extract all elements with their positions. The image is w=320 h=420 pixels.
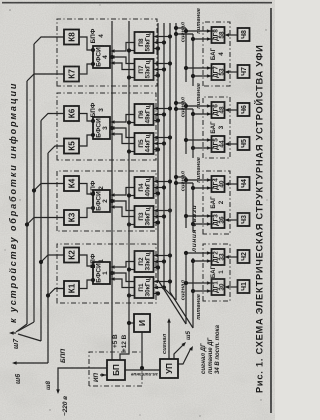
wire: К6 output to bus 3 bbox=[41, 114, 64, 121]
block БФСИ 2 bbox=[93, 190, 110, 212]
block К6 bbox=[64, 106, 79, 121]
tap: trunk line 2 to П1 bbox=[155, 287, 164, 289]
wire: П8 to БФСИ 4 bbox=[112, 43, 135, 52]
block Ч2 bbox=[238, 250, 250, 263]
block ДГ5 (44) bbox=[212, 136, 226, 152]
block К7 bbox=[64, 67, 79, 82]
block П5 (44 кГц) bbox=[135, 133, 154, 154]
stub: +12 В rail to П2 bbox=[129, 269, 135, 271]
group label БАГ 4 bbox=[210, 47, 225, 60]
block ДГ3 (36) bbox=[212, 212, 226, 228]
wire: П7 to БФСИ 4 (signal) bbox=[112, 63, 135, 70]
wire: К3 output to bus 1 bbox=[27, 218, 64, 225]
wire: П1 to БФСИ 1 (signal) bbox=[112, 279, 135, 288]
wire: К7 to БФСИ 4 bbox=[79, 64, 93, 74]
group label БПФ 3 bbox=[90, 102, 105, 117]
wire: К4 to БФСИ 2 bbox=[79, 184, 93, 195]
block Ч3 bbox=[238, 213, 250, 226]
bus line 4 (y47) to ш6 bbox=[47, 153, 49, 363]
wire: П6 to БФСИ 3 bbox=[112, 115, 135, 123]
block Ч8 bbox=[238, 28, 250, 41]
tap: trunk line 1 to П3 bbox=[155, 222, 158, 224]
page edge (right of landscape scan) bbox=[2, 2, 272, 4]
tap: trunk line 3 to П8 bbox=[155, 36, 170, 38]
wire: К4 output to bus 2 bbox=[34, 184, 64, 191]
dashed group boundary БПФ 1 bbox=[57, 244, 156, 303]
block Ч4 bbox=[238, 177, 250, 190]
tap: trunk line 2 to П3 bbox=[155, 216, 164, 218]
block К3 bbox=[64, 210, 79, 225]
block П4 (40 кГц) bbox=[135, 177, 154, 198]
tap: trunk line 3 to П2 bbox=[155, 255, 170, 257]
feed: питание rail to ДГ bbox=[193, 147, 213, 149]
block БФСИ 4 bbox=[93, 46, 110, 68]
feed: сигнал rail to ДГ bbox=[186, 179, 213, 181]
block ДГ2 (33) bbox=[212, 249, 226, 265]
stub: +5 В rail to БФСИ 3 bbox=[110, 127, 112, 129]
stub: +12 В rail to П8 bbox=[129, 50, 135, 52]
wire: УП to ш5 (сигнал ДГ) bbox=[174, 344, 184, 359]
wire: К8 output to bus 2 bbox=[34, 37, 64, 44]
wire: П3 to БФСИ 2 (signal) bbox=[112, 207, 135, 217]
block ДГ4 (40) bbox=[212, 176, 226, 192]
tap: trunk line 1 to П7 bbox=[155, 75, 158, 77]
tap: trunk line 3 to П1 bbox=[155, 281, 170, 283]
power rail (питание) of БАГ 2 bbox=[192, 183, 194, 232]
feed: питание rail to ДГ bbox=[193, 187, 213, 189]
page edge (bottom of landscape scan) bbox=[270, 8, 272, 413]
wire: П3 to БФСИ 2 (sync) bbox=[112, 201, 135, 211]
block ДГ1 (30) bbox=[212, 279, 226, 295]
wire: П5 to БФСИ 3 (signal) bbox=[112, 134, 135, 144]
wire: УП to ш5 (питание ДГ 34 В) bbox=[178, 348, 191, 364]
stub: +5 В rail to БФСИ 4 bbox=[110, 56, 112, 58]
block Ч6 bbox=[238, 103, 250, 116]
signal rail (сигнал) of БАГ 4 bbox=[185, 28, 187, 82]
connector arrow ш7 (fork merge of buses) bbox=[11, 322, 41, 341]
wire: К1 output to bus 4 bbox=[48, 289, 64, 296]
signal rail (сигнал) of БАГ 3 bbox=[185, 103, 187, 154]
block БФСИ 3 bbox=[93, 117, 110, 139]
riser: trunk to питание rail БАГ 2 bbox=[176, 182, 193, 184]
tap: trunk line 2 to П4 bbox=[155, 187, 164, 189]
control unit УП bbox=[160, 359, 178, 378]
power rail +5 В bbox=[111, 21, 113, 360]
signal rail (сигнал) of БАГ 2 bbox=[185, 177, 187, 228]
group label БПФ 4 bbox=[90, 28, 105, 43]
wire: Ч3 to ДГ3 bbox=[226, 219, 238, 221]
stub: +12 В rail to И bbox=[129, 322, 135, 324]
group label БАГ 2 bbox=[210, 196, 225, 209]
block П7 (53 кГц) bbox=[135, 59, 154, 80]
block И bbox=[134, 314, 150, 332]
power rail (питание) of БАГ 3 bbox=[192, 109, 194, 158]
wire: К2 output to bus 3 bbox=[41, 255, 64, 262]
block П6 (48 кГц) bbox=[135, 104, 154, 125]
stub: +12 В rail to П3 bbox=[129, 224, 135, 226]
feed: сигнал rail to ДГ bbox=[186, 139, 213, 141]
tap: trunk line 1 to П5 bbox=[155, 149, 158, 151]
communication line 4 (линия связи) bbox=[175, 23, 177, 300]
dashed group boundary БПФ 2 bbox=[57, 171, 156, 231]
wire: К8 to БФСИ 4 bbox=[79, 37, 93, 50]
riser: trunk to сигнал rail БАГ 3 bbox=[176, 102, 186, 104]
tap: trunk line 2 to П7 bbox=[155, 69, 164, 71]
tap: trunk line 2 to П8 bbox=[155, 42, 164, 44]
dashed group boundary БПФ 4 bbox=[57, 19, 157, 86]
block ДГ7 (53) bbox=[212, 64, 226, 80]
group label БАГ 1 bbox=[210, 265, 225, 278]
wire: К5 output to bus 4 bbox=[48, 146, 64, 153]
dashed group boundary БПП bbox=[89, 352, 142, 386]
wire: К2 to БФСИ 1 bbox=[79, 255, 93, 266]
wire: Ч6 to ДГ6 bbox=[226, 109, 238, 111]
power rail (питание) of БАГ 1 bbox=[192, 258, 194, 328]
signal rail (сигнал) of БАГ 1 bbox=[185, 252, 187, 324]
stub: +5 В rail to БФСИ 1 bbox=[110, 272, 112, 274]
wire: П2 to БФСИ 1 bbox=[112, 262, 135, 268]
bus line 1 (y24) to ш7 bbox=[26, 81, 28, 324]
feed: питание rail to ДГ bbox=[193, 75, 213, 77]
wire: УП сигнал output to trunk area bbox=[168, 320, 170, 359]
feed: питание rail to ДГ bbox=[193, 223, 213, 225]
block П8 (58 кГц) bbox=[135, 32, 154, 53]
riser: trunk to питание rail БАГ 3 bbox=[176, 108, 193, 110]
block К4 bbox=[64, 176, 79, 191]
block К1 bbox=[64, 281, 79, 296]
block П3 (36 кГц) bbox=[135, 206, 154, 227]
feed: питание rail to ДГ bbox=[193, 38, 213, 40]
feed: сигнал rail to ДГ bbox=[186, 215, 213, 217]
block Ч1 bbox=[238, 280, 250, 293]
connector arrow ш6 (to data-processing device) bbox=[14, 362, 48, 364]
communication line 2 (линия связи) bbox=[163, 23, 165, 288]
tap: trunk line 3 to П3 bbox=[155, 210, 170, 212]
block БФСИ 1 bbox=[93, 262, 110, 284]
wire: mains ~220 В to БП via ш8 bbox=[58, 368, 107, 392]
wire: К7 output to bus 1 bbox=[27, 74, 64, 81]
tap: trunk line 3 to П6 bbox=[155, 108, 170, 110]
feed: сигнал rail to ДГ bbox=[186, 67, 213, 69]
stub: +12 В rail to П7 bbox=[129, 77, 135, 79]
wire: К1 to БФСИ 1 bbox=[79, 280, 93, 289]
tap: trunk line 2 to П6 bbox=[155, 114, 164, 116]
block П1 (30 кГц) bbox=[135, 277, 154, 298]
block ДГ8 (58) bbox=[212, 27, 226, 43]
stub: +12 В rail to П5 bbox=[129, 151, 135, 153]
wire: Ч7 to ДГ7 bbox=[226, 71, 238, 73]
power unit БП bbox=[107, 360, 125, 380]
feed: сигнал rail to ДГ bbox=[186, 252, 213, 254]
block ДГ6 (48) bbox=[212, 102, 226, 118]
tap: trunk line 1 to П8 bbox=[155, 48, 158, 50]
stub: +12 В rail to П6 bbox=[129, 122, 135, 124]
wire: Ч1 to ДГ1 bbox=[226, 286, 238, 288]
wire: БП to УП (эл. питание) bbox=[125, 369, 160, 371]
dashed group boundary БАГ 2 bbox=[203, 171, 230, 234]
wire: trunk line 1 to ш5 (сигнал ДГ) bbox=[158, 280, 186, 324]
wire: Ч2 to ДГ2 bbox=[226, 256, 238, 258]
tap: trunk line 1 to П4 bbox=[155, 193, 158, 195]
wire: П7 to БФСИ 4 (sync) bbox=[112, 57, 135, 64]
feed: сигнал rail to ДГ bbox=[186, 105, 213, 107]
tap: trunk line 3 to П7 bbox=[155, 63, 170, 65]
wire: П5 to БФСИ 3 (sync) bbox=[112, 128, 135, 138]
stub: +12 В rail to П4 bbox=[129, 195, 135, 197]
wire: П1 to БФСИ 1 (sync) bbox=[112, 273, 135, 282]
wire: И to УП branch bbox=[141, 332, 143, 368]
power rail (питание) of БАГ 4 bbox=[192, 34, 194, 86]
dashed group boundary БПФ 3 bbox=[57, 93, 156, 160]
tap: trunk line 2 to П5 bbox=[155, 143, 164, 145]
feed: сигнал rail to ДГ bbox=[186, 30, 213, 32]
stub: +5 В rail to БФСИ 2 bbox=[110, 200, 112, 202]
wire: К3 to БФСИ 2 bbox=[79, 208, 93, 218]
tap: trunk line 3 to П5 bbox=[155, 137, 170, 139]
wire: К6 to БФСИ 3 bbox=[79, 114, 93, 122]
dashed group boundary БАГ 3 bbox=[203, 97, 230, 158]
group label БПФ 2 bbox=[90, 180, 105, 195]
feed: питание rail to ДГ bbox=[193, 260, 213, 262]
block Ч5 bbox=[238, 137, 250, 150]
tap: trunk line 2 to П2 bbox=[155, 261, 164, 263]
wire: ИП into БП bbox=[100, 374, 107, 376]
wire: Ч5 to ДГ5 bbox=[226, 143, 238, 145]
power rail +12 В bbox=[120, 21, 129, 360]
block П2 (33 кГц) bbox=[135, 251, 154, 272]
stub: +12 В rail to П1 bbox=[129, 295, 135, 297]
feed: питание rail to ДГ bbox=[193, 113, 213, 115]
wire: Ч8 to ДГ8 bbox=[226, 34, 238, 36]
block К5 bbox=[64, 139, 79, 154]
riser: trunk to сигнал rail БАГ 4 bbox=[176, 27, 186, 29]
wire: К5 to БФСИ 3 bbox=[79, 135, 93, 146]
tap: trunk line 1 to П2 bbox=[155, 267, 158, 269]
communication line 3 (линия связи) bbox=[169, 23, 171, 292]
riser: trunk to питание rail БАГ 4 bbox=[176, 33, 193, 35]
group label БПФ 1 bbox=[90, 253, 105, 268]
bus line 3 (y40) to ш7 bbox=[40, 121, 42, 342]
wire: trunk line 3 to ш5 (питание ДГ) bbox=[170, 292, 193, 328]
group label БАГ 3 bbox=[210, 121, 225, 134]
tap: trunk line 1 to П6 bbox=[155, 120, 158, 122]
dashed group boundary БАГ 1 bbox=[203, 244, 230, 301]
block К2 bbox=[64, 248, 79, 263]
wire: П4 to БФСИ 2 bbox=[112, 188, 135, 196]
feed: сигнал rail to ДГ bbox=[186, 282, 213, 284]
tap: trunk line 1 to П1 bbox=[155, 293, 158, 295]
bus line 2 (y31) to ш7 bbox=[33, 44, 35, 322]
dashed group boundary БАГ 4 bbox=[203, 22, 230, 86]
wire: trunk line 2 merge bbox=[164, 288, 175, 299]
wire: Ч4 to ДГ4 bbox=[226, 183, 238, 185]
riser: trunk to сигнал rail БАГ 2 bbox=[176, 176, 186, 178]
feed: питание rail to ДГ bbox=[193, 290, 213, 292]
tap: trunk line 3 to П4 bbox=[155, 181, 170, 183]
communication line 1 (линия связи) bbox=[157, 23, 159, 280]
block К8 bbox=[64, 30, 79, 45]
block Ч7 bbox=[238, 65, 250, 78]
